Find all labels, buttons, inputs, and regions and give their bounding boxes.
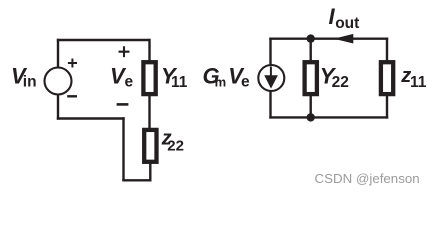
impedance z11 [381,62,393,94]
impedance z22 [144,130,156,162]
wire [148,96,150,129]
svg-text:e: e [241,74,250,91]
node Ve plus [119,46,130,57]
admittance Y11 [143,62,155,94]
junction dot bottom [307,113,315,121]
wire [57,39,59,68]
current arrow Iout [334,34,354,44]
wire [57,117,125,119]
wire [122,179,150,181]
svg-text:in: in [23,74,37,91]
svg-text:e: e [125,74,134,91]
wire [269,38,388,40]
wire [148,39,150,61]
wire [269,116,388,118]
wire [57,39,150,41]
current source GmVe [258,65,284,91]
svg-text:11: 11 [171,74,188,91]
node Ve minus [117,103,129,106]
wire [386,96,388,119]
junction dot top [307,34,315,42]
admittance Y22 [305,62,317,94]
wire [149,163,151,182]
wire [310,96,312,118]
wire [269,91,271,119]
svg-text:22: 22 [332,74,349,91]
wire [310,39,312,61]
wire [269,38,271,66]
wire [386,38,388,62]
svg-text:m: m [215,75,227,90]
wire [57,95,59,120]
svg-text:11: 11 [410,74,427,91]
voltage source V_in [45,59,78,97]
svg-text:out: out [335,15,359,32]
svg-text:CSDN @jefenson: CSDN @jefenson [315,171,420,186]
svg-text:22: 22 [167,138,184,155]
wire [122,117,124,181]
